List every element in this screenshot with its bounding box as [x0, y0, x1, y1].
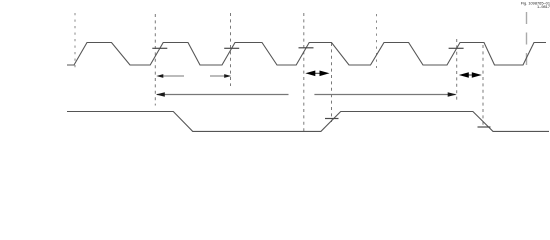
node D3 dashed measurement line [230, 13, 232, 86]
tick on clock rising edge 2 [152, 47, 167, 49]
clock waveform CLKX [67, 43, 546, 66]
tick on clock rising edge 4 [299, 47, 314, 49]
node D5 dashed measurement line [331, 43, 333, 122]
thick double arrow A between D4 and D5 [310, 72, 325, 74]
long dimension arrow from D2 to D7, left segment [157, 94, 289, 96]
node D9 gray long-dash reference line at seventh clock rising edge [526, 12, 528, 66]
dimension arrow left (one period) left half [158, 75, 184, 77]
tick on data rising edge [325, 118, 339, 120]
figure id text line 1 [521, 1, 550, 6]
node D2 dashed measurement line [154, 14, 156, 106]
node D6 dotted reference line at fifth clock rising edge [376, 14, 378, 68]
node D1 dotted reference line at first clock rising edge [74, 13, 76, 68]
tick on data falling edge [478, 126, 491, 128]
tick on clock rising edge 3 [224, 47, 239, 49]
figure id text line 2 [537, 4, 550, 9]
node D4 dashed measurement line [303, 13, 305, 134]
svg-text:1–9817: 1–9817 [537, 4, 550, 9]
dimension arrow left (one period) right half [210, 75, 230, 77]
long dimension arrow right segment [314, 94, 455, 96]
node D7 dashed measurement line [456, 39, 458, 103]
thick double arrow B between D7 and D8 [463, 74, 477, 76]
data waveform DX [67, 112, 549, 132]
tick on clock rising edge 6 [449, 47, 464, 49]
node D8 dashed measurement line [482, 45, 484, 128]
